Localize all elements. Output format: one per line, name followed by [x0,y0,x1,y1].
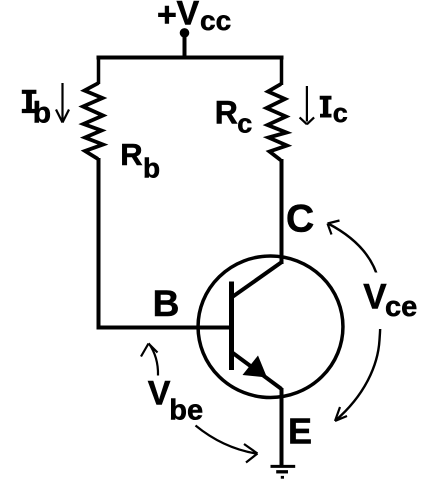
svg-text:ce: ce [385,291,417,323]
svg-text:V: V [177,0,200,33]
svg-text:R: R [215,95,238,131]
svg-text:+: + [157,0,177,34]
wire left branch upper [97,56,101,85]
wire left branch lower [97,158,101,330]
arrow Vce arc [328,221,381,422]
transistor Q1 circle [198,256,343,398]
ground [271,466,296,478]
label Vce [359,273,423,330]
transistor collector diagonal [232,262,283,298]
svg-text:c: c [333,98,348,128]
arrow Vbe curve [196,426,258,463]
arrow Vbe up [141,343,158,375]
svg-text:R: R [120,137,142,172]
transistor emitter diagonal [232,352,282,389]
transistor emitter arrowhead [243,356,268,378]
svg-text:V: V [363,277,387,316]
wire top rail [97,56,284,60]
svg-text:E: E [288,411,312,452]
wire Vcc stub [183,33,187,58]
label +Vcc [157,0,231,36]
node Vcc dot [180,28,190,38]
resistor Rb [83,83,103,159]
svg-text:b: b [143,152,160,183]
svg-text:b: b [33,97,51,130]
label Rb [120,137,160,183]
transistor base bar [229,282,234,371]
resistor Rc [267,84,288,160]
svg-text:B: B [153,283,180,324]
label Vbe [148,374,203,426]
arrow Ib current [56,83,69,123]
label Ib [22,90,51,130]
wire base [97,326,234,330]
arrow Ic current [300,86,315,124]
svg-text:cc: cc [200,5,231,36]
svg-text:C: C [286,197,314,240]
label Ic [320,96,348,128]
svg-text:V: V [148,374,171,412]
svg-text:c: c [237,109,252,139]
label Rc [215,95,253,139]
wire emitter [280,388,284,466]
wire right branch upper [280,56,284,86]
svg-text:be: be [169,395,203,427]
wire collector [280,159,284,264]
